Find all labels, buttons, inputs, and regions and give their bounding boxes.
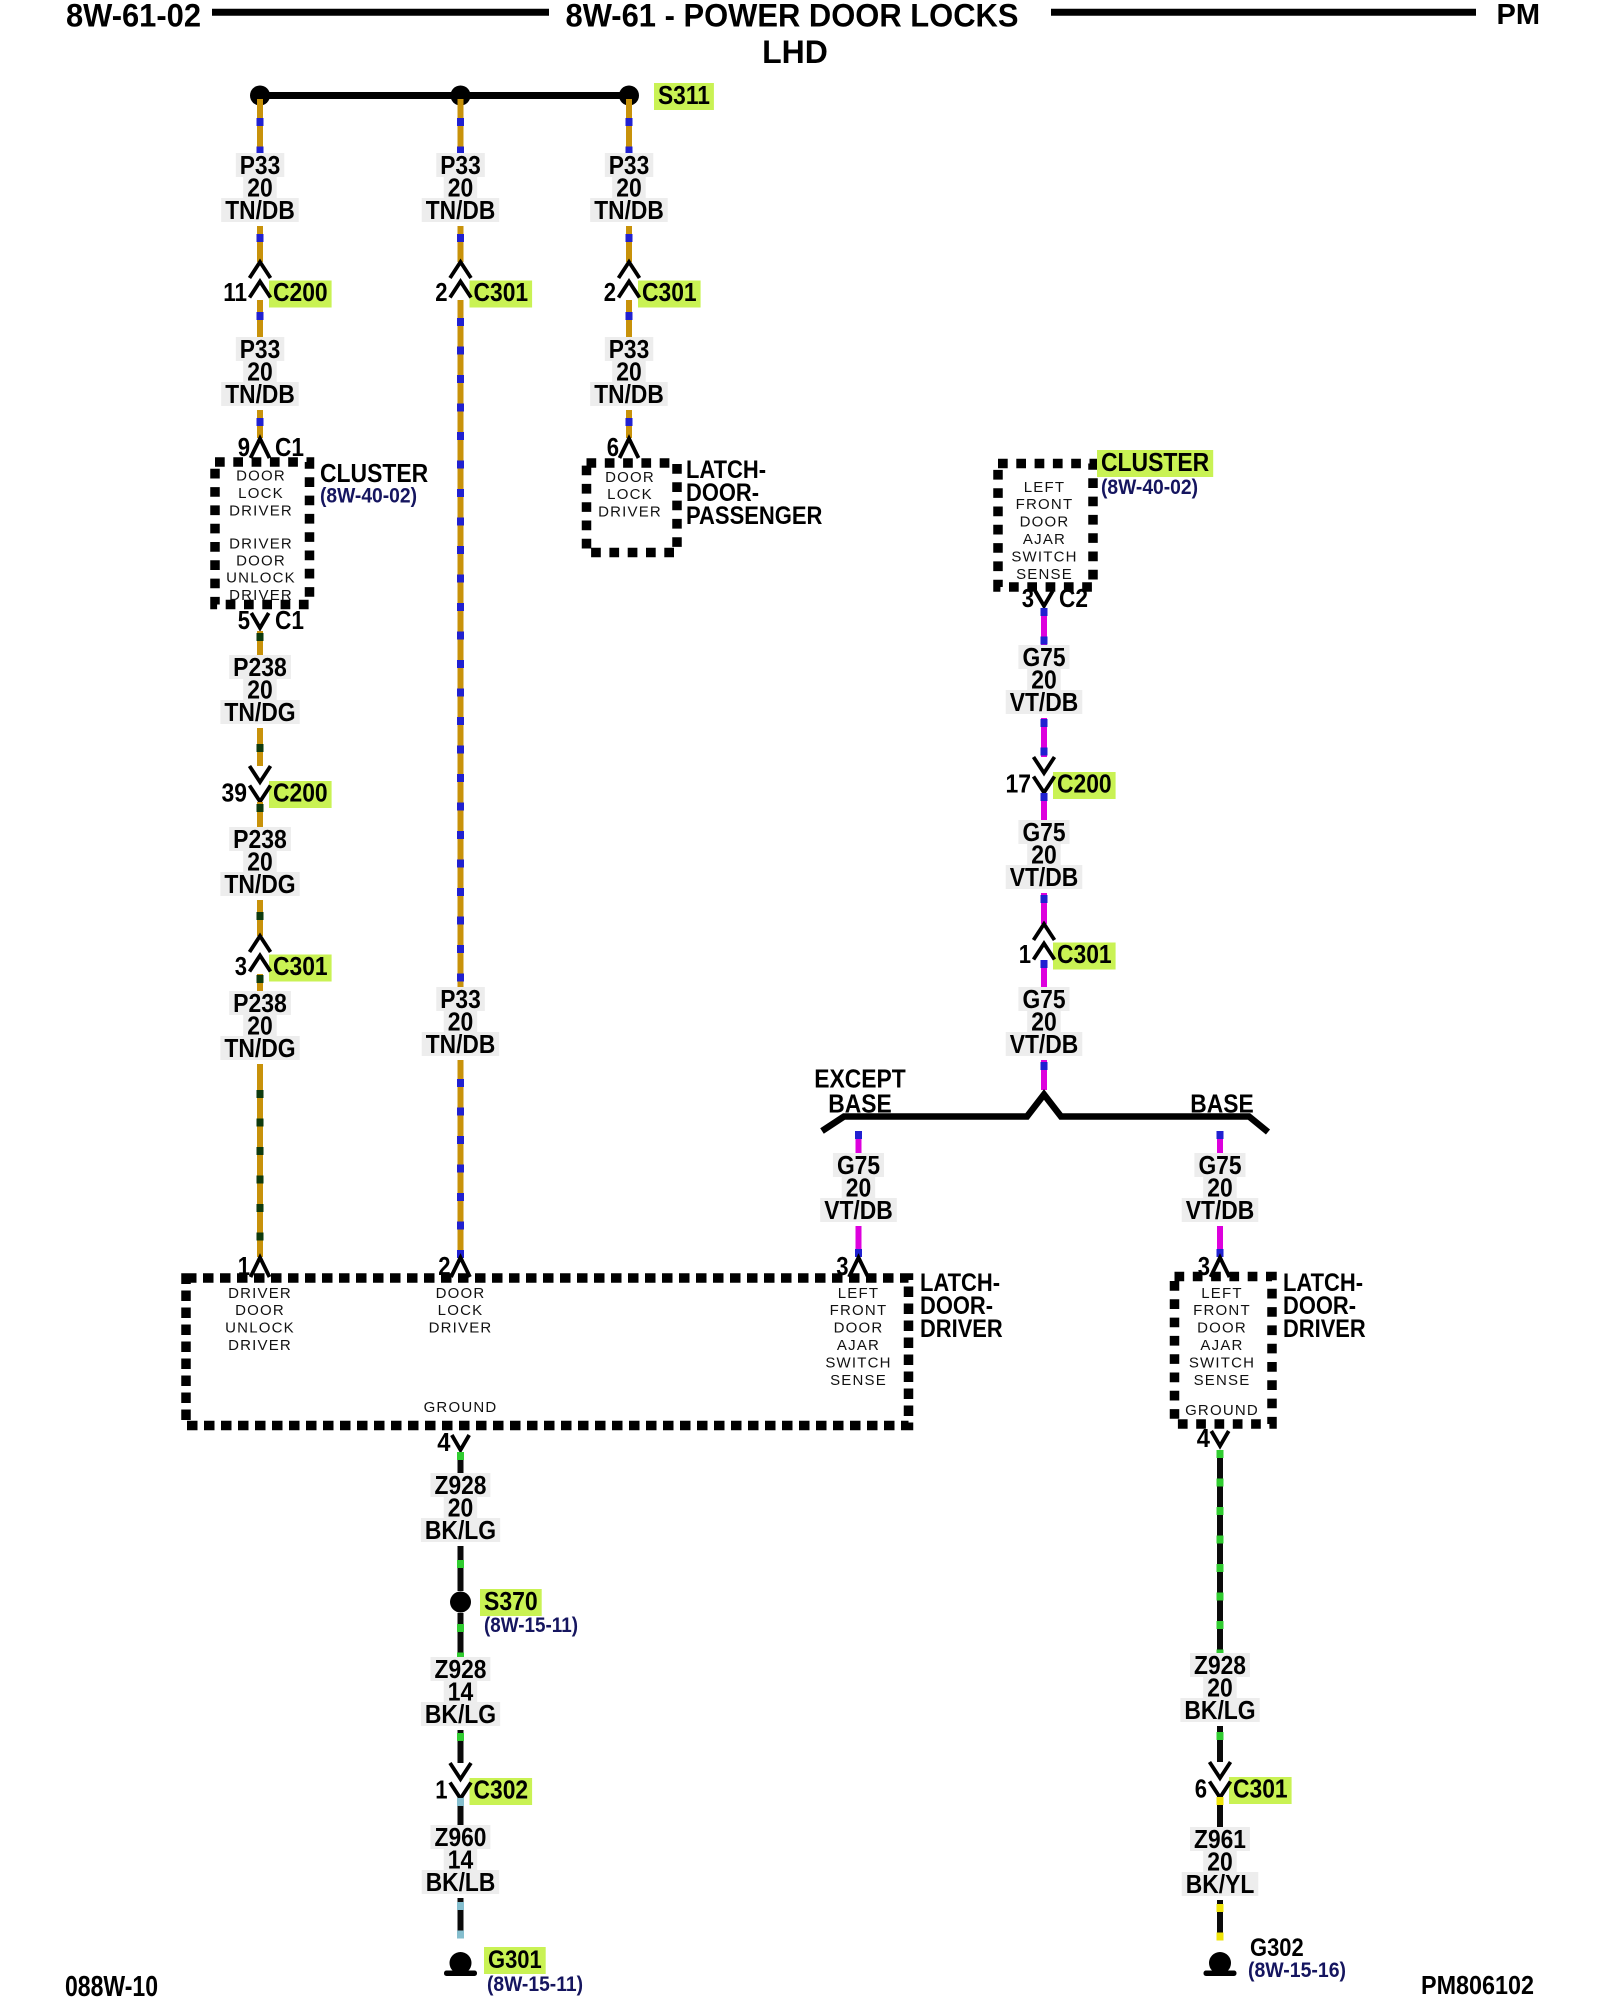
svg-text:3: 3: [235, 951, 247, 981]
svg-text:DRIVER: DRIVER: [229, 535, 293, 552]
svg-text:DOOR: DOOR: [436, 1285, 486, 1302]
pin 3 into latch (base): [1198, 1251, 1230, 1281]
svg-text:4: 4: [1197, 1423, 1211, 1453]
svg-text:C200: C200: [273, 778, 328, 808]
svg-text:FRONT: FRONT: [1016, 496, 1074, 513]
label LATCH-DOOR-DRIVER (except base): [920, 1269, 1003, 1343]
svg-text:(8W-15-16): (8W-15-16): [1248, 1959, 1346, 1982]
wire Z960 BK/LB segment B10: [457, 1898, 464, 1939]
wire Z928 BK/LG segment F2: [1217, 1726, 1224, 1762]
connector C200 pin 11: [223, 262, 331, 308]
splice label S311: [654, 80, 714, 110]
wire label G75 20 VT/DB (E): [820, 1150, 897, 1225]
svg-text:C301: C301: [1057, 939, 1112, 969]
variant split symbol (brace): [822, 1095, 1268, 1133]
svg-text:(8W-40-02): (8W-40-02): [1101, 476, 1198, 499]
connector C301 pin 1: [1019, 924, 1116, 970]
wire P33 TN/DB segment C4: [626, 410, 633, 438]
wire label G75 20 VT/DB (F): [1182, 1150, 1259, 1225]
wire label Z961 20 BK/YL: [1182, 1824, 1259, 1899]
svg-text:SENSE: SENSE: [1194, 1372, 1251, 1389]
svg-text:DRIVER: DRIVER: [429, 1320, 493, 1337]
wire G75 VT/DB segment D3: [1041, 793, 1048, 822]
svg-text:(8W-15-11): (8W-15-11): [484, 1614, 578, 1637]
svg-text:G301: G301: [488, 1946, 542, 1974]
svg-text:DRIVER: DRIVER: [598, 504, 662, 521]
svg-text:3: 3: [1022, 583, 1034, 613]
pin 5 C1 out of cluster: [238, 605, 304, 635]
svg-text:DOOR: DOOR: [1020, 514, 1070, 531]
svg-text:PM: PM: [1497, 0, 1541, 31]
wire P238 TN/DG segment A6: [257, 728, 264, 766]
wire G75 VT/DB segment D1: [1041, 608, 1048, 646]
svg-text:TN/DB: TN/DB: [225, 379, 295, 409]
header rule right: [1051, 9, 1476, 16]
wire Z928 BK/LG segment B7: [457, 1613, 464, 1661]
svg-text:VT/DB: VT/DB: [1010, 1029, 1079, 1059]
latch pin 2 function text: [429, 1285, 493, 1337]
wire P33 TN/DB segment A1: [257, 99, 264, 155]
wire P33 TN/DB segment C3: [626, 300, 633, 340]
svg-text:PASSENGER: PASSENGER: [686, 502, 822, 530]
svg-text:DOOR: DOOR: [236, 468, 286, 485]
wire P33 TN/DB segment C2: [626, 226, 633, 262]
wire G75 VT/DB segment F0b: [1217, 1226, 1224, 1257]
svg-text:LOCK: LOCK: [438, 1302, 484, 1319]
latch pin 1 function text: [225, 1285, 295, 1354]
svg-text:DRIVER: DRIVER: [229, 503, 293, 520]
latch(base) pin 3 function text: [1189, 1285, 1255, 1389]
svg-text:PM806102: PM806102: [1421, 1970, 1534, 2000]
wire label G75 20 VT/DB (D3): [1006, 984, 1083, 1059]
connector C301 pin 3: [235, 936, 332, 982]
wire label P33 20 TN/DB (A): [221, 150, 299, 225]
svg-text:8W-61 - POWER DOOR LOCKS: 8W-61 - POWER DOOR LOCKS: [566, 0, 1019, 34]
label EXCEPT BASE: [814, 1064, 906, 1119]
wire label P33 20 TN/DB (B): [422, 150, 500, 225]
junction dot middle: [451, 86, 471, 106]
svg-text:C302: C302: [474, 1775, 529, 1805]
svg-text:DRIVER: DRIVER: [228, 1337, 292, 1354]
svg-text:BK/LG: BK/LG: [425, 1699, 496, 1729]
svg-text:BK/LG: BK/LG: [1184, 1695, 1255, 1725]
cluster pin functions text (upper): [229, 468, 293, 520]
pin 4 ground out of latch (base): [1197, 1423, 1229, 1453]
svg-text:39: 39: [222, 778, 248, 808]
svg-text:5: 5: [238, 605, 250, 635]
wire label G75 20 VT/DB (D): [1006, 642, 1083, 717]
wire P33 TN/DB segment B4: [457, 1060, 464, 1258]
svg-text:FRONT: FRONT: [830, 1302, 888, 1319]
svg-text:LOCK: LOCK: [607, 486, 653, 503]
svg-text:S311: S311: [658, 80, 710, 110]
wire label P33 20 TN/DB (C): [590, 150, 668, 225]
svg-text:DRIVER: DRIVER: [229, 587, 293, 604]
svg-text:CLUSTER: CLUSTER: [320, 458, 428, 488]
svg-text:C301: C301: [642, 277, 697, 307]
junction dot left: [250, 86, 270, 106]
svg-text:TN/DB: TN/DB: [594, 195, 664, 225]
svg-text:DOOR: DOOR: [236, 553, 286, 570]
svg-text:DOOR: DOOR: [235, 1302, 285, 1319]
svg-text:BK/LG: BK/LG: [425, 1515, 496, 1545]
wire G75 VT/DB segment D2: [1041, 718, 1048, 757]
svg-text:4: 4: [437, 1427, 451, 1457]
svg-text:TN/DB: TN/DB: [426, 195, 496, 225]
header rule left: [212, 9, 549, 16]
svg-text:LEFT: LEFT: [1024, 479, 1065, 496]
svg-text:SWITCH: SWITCH: [825, 1354, 891, 1371]
junction dot right: [619, 86, 639, 106]
cluster pin functions text (lower): [226, 535, 296, 604]
latch(base) ground text: [1185, 1402, 1259, 1419]
connector C301 pin 2 (B): [435, 262, 532, 308]
wire label P33 20 TN/DB (C2): [590, 334, 668, 409]
svg-text:1: 1: [1019, 939, 1031, 969]
wire G75 VT/DB segment E1: [855, 1131, 862, 1154]
wire G75 VT/DB segment D6: [1041, 1060, 1048, 1090]
wire Z928 BK/LG segment B6: [457, 1546, 464, 1591]
passenger latch pin function text: [598, 469, 662, 521]
wire label Z928 14 BK/LG: [421, 1654, 500, 1729]
svg-text:DRIVER: DRIVER: [920, 1315, 1003, 1343]
svg-text:2: 2: [604, 277, 616, 307]
svg-text:8W-61-02: 8W-61-02: [66, 0, 201, 34]
svg-text:BASE: BASE: [1190, 1089, 1253, 1119]
svg-text:2: 2: [435, 277, 447, 307]
svg-text:BK/LB: BK/LB: [426, 1867, 496, 1897]
svg-text:VT/DB: VT/DB: [1186, 1195, 1255, 1225]
svg-text:6: 6: [1195, 1774, 1207, 1804]
component box CLUSTER (left): [215, 462, 310, 605]
wire P33 TN/DB segment A2: [257, 226, 264, 262]
wire label P238 20 TN/DG (A3): [220, 988, 299, 1063]
ground symbol G301: [444, 1952, 477, 1976]
svg-text:1: 1: [435, 1775, 447, 1805]
wire P33 TN/DB segment B1: [457, 99, 464, 155]
svg-text:VT/DB: VT/DB: [824, 1195, 893, 1225]
wire P33 TN/DB segment A3: [257, 300, 264, 340]
svg-text:6: 6: [607, 432, 619, 462]
svg-text:TN/DG: TN/DG: [224, 869, 295, 899]
wire Z928 BK/LG segment B8: [457, 1730, 464, 1763]
splice bus S311 wire: [260, 92, 629, 99]
wire label P33 20 TN/DB (A2): [221, 334, 299, 409]
svg-text:AJAR: AJAR: [1200, 1337, 1243, 1354]
svg-text:GROUND: GROUND: [424, 1399, 498, 1416]
svg-text:SWITCH: SWITCH: [1011, 548, 1077, 565]
svg-text:CLUSTER: CLUSTER: [1101, 447, 1209, 477]
connector C200 pin 39: [222, 766, 332, 808]
wire label Z960 14 BK/LB: [422, 1822, 500, 1897]
svg-text:VT/DB: VT/DB: [1010, 862, 1079, 892]
svg-text:088W-10: 088W-10: [65, 1971, 158, 2000]
svg-text:DRIVER: DRIVER: [228, 1285, 292, 1302]
wire P238 TN/DG segment A7: [257, 802, 264, 830]
wire P33 TN/DB long segment B3: [457, 300, 464, 988]
pin 4 ground out of latch: [437, 1427, 469, 1457]
connector C302 pin 1: [435, 1763, 532, 1805]
label CLUSTER highlighted: [1097, 447, 1213, 477]
splice S370: [450, 1592, 471, 1613]
wire Z928 BK/LG segment F1: [1217, 1450, 1224, 1658]
svg-text:G302: G302: [1250, 1934, 1304, 1962]
splice label S370: [480, 1586, 542, 1616]
wire label P238 20 TN/DG (A2): [220, 824, 299, 899]
component box LATCH-DOOR-DRIVER (except base): [186, 1278, 909, 1426]
wire label Z928 20 BK/LG (F): [1180, 1650, 1259, 1725]
wire P238 TN/DG segment A8: [257, 900, 264, 936]
ground symbol G302: [1204, 1952, 1237, 1976]
wire P33 TN/DB segment C1: [626, 99, 633, 155]
svg-text:SWITCH: SWITCH: [1189, 1354, 1255, 1371]
wire G75 VT/DB segment D5: [1041, 960, 1048, 988]
svg-text:C301: C301: [474, 277, 529, 307]
svg-text:LEFT: LEFT: [1201, 1285, 1242, 1302]
svg-text:S370: S370: [484, 1586, 538, 1616]
pin 1 into latch-door-driver: [238, 1251, 270, 1281]
component box LATCH-DOOR-DRIVER (base): [1175, 1277, 1273, 1425]
wire P238 TN/DG segment A9: [257, 974, 264, 994]
svg-text:TN/DG: TN/DG: [224, 697, 295, 727]
svg-text:BK/YL: BK/YL: [1186, 1869, 1255, 1899]
svg-text:TN/DB: TN/DB: [594, 379, 664, 409]
svg-text:DOOR: DOOR: [605, 469, 655, 486]
wire label G75 20 VT/DB (D2): [1006, 817, 1083, 892]
svg-text:LOCK: LOCK: [238, 485, 284, 502]
latch pin 3 function text: [825, 1285, 891, 1389]
svg-text:LEFT: LEFT: [838, 1285, 879, 1302]
svg-text:SENSE: SENSE: [830, 1372, 887, 1389]
pin 2 into latch-door-driver: [438, 1251, 470, 1281]
pin 9 C1 into cluster: [238, 432, 304, 462]
wire G75 VT/DB segment D4: [1041, 893, 1048, 924]
svg-text:VT/DB: VT/DB: [1010, 687, 1079, 717]
wire P238 TN/DG segment A10: [257, 1064, 264, 1257]
wire Z961 BK/YL segment F3: [1217, 1796, 1224, 1829]
latch ground text: [424, 1399, 498, 1416]
svg-text:UNLOCK: UNLOCK: [226, 570, 296, 587]
component box LATCH-DOOR-PASSENGER: [587, 463, 678, 553]
svg-text:DRIVER: DRIVER: [1283, 1315, 1366, 1343]
svg-text:AJAR: AJAR: [1023, 531, 1066, 548]
svg-text:DOOR: DOOR: [1197, 1320, 1247, 1337]
pin 3 C2 out of cluster: [1022, 583, 1088, 613]
component box CLUSTER (right): [998, 464, 1093, 588]
svg-text:AJAR: AJAR: [837, 1337, 880, 1354]
svg-text:C2: C2: [1059, 583, 1088, 613]
svg-text:C301: C301: [1233, 1774, 1288, 1804]
connector C301 pin 6: [1195, 1762, 1292, 1804]
svg-text:C1: C1: [275, 605, 304, 635]
connector C301 pin 2 (C): [604, 262, 701, 308]
pin 3 into latch-door-driver: [836, 1251, 868, 1281]
cluster ajar switch text: [1011, 479, 1077, 583]
wire Z960 BK/LB segment B9: [457, 1797, 464, 1827]
wire label P238 20 TN/DG (A): [220, 652, 299, 727]
svg-text:BASE: BASE: [828, 1089, 891, 1119]
connector C200 pin 17: [1006, 757, 1116, 799]
svg-text:3: 3: [1198, 1251, 1210, 1281]
label LATCH-DOOR-DRIVER (base): [1283, 1269, 1366, 1343]
wire P33 TN/DB segment A4: [257, 410, 264, 438]
svg-text:FRONT: FRONT: [1193, 1302, 1251, 1319]
wire label P33 20 TN/DB (B2): [422, 984, 500, 1059]
svg-text:C200: C200: [1057, 769, 1112, 799]
svg-text:UNLOCK: UNLOCK: [225, 1320, 295, 1337]
label LATCH-DOOR-PASSENGER: [686, 456, 822, 530]
svg-text:GROUND: GROUND: [1185, 1402, 1259, 1419]
svg-text:11: 11: [223, 277, 247, 307]
svg-text:DOOR: DOOR: [834, 1320, 884, 1337]
wire P238 TN/DG segment A5: [257, 631, 264, 658]
ground label G301: [484, 1946, 546, 1974]
svg-text:(8W-15-11): (8W-15-11): [487, 1973, 583, 1996]
svg-text:17: 17: [1006, 769, 1032, 799]
svg-text:TN/DB: TN/DB: [426, 1029, 496, 1059]
svg-text:C200: C200: [273, 277, 328, 307]
wire Z928 BK/LG segment B5: [457, 1452, 464, 1474]
wire label Z928 20 BK/LG (B): [421, 1470, 500, 1545]
pin 6 into latch-door-passenger: [607, 432, 639, 462]
svg-text:TN/DB: TN/DB: [225, 195, 295, 225]
svg-text:LHD: LHD: [762, 34, 828, 70]
wire G75 VT/DB segment F0: [1217, 1131, 1224, 1154]
svg-text:C301: C301: [273, 951, 328, 981]
svg-text:TN/DG: TN/DG: [224, 1033, 295, 1063]
svg-text:(8W-40-02): (8W-40-02): [320, 485, 417, 508]
wire P33 TN/DB segment B2: [457, 226, 464, 262]
svg-text:SENSE: SENSE: [1016, 566, 1073, 583]
wire Z961 BK/YL segment F4: [1217, 1900, 1224, 1941]
wire G75 VT/DB segment E2: [855, 1226, 862, 1257]
